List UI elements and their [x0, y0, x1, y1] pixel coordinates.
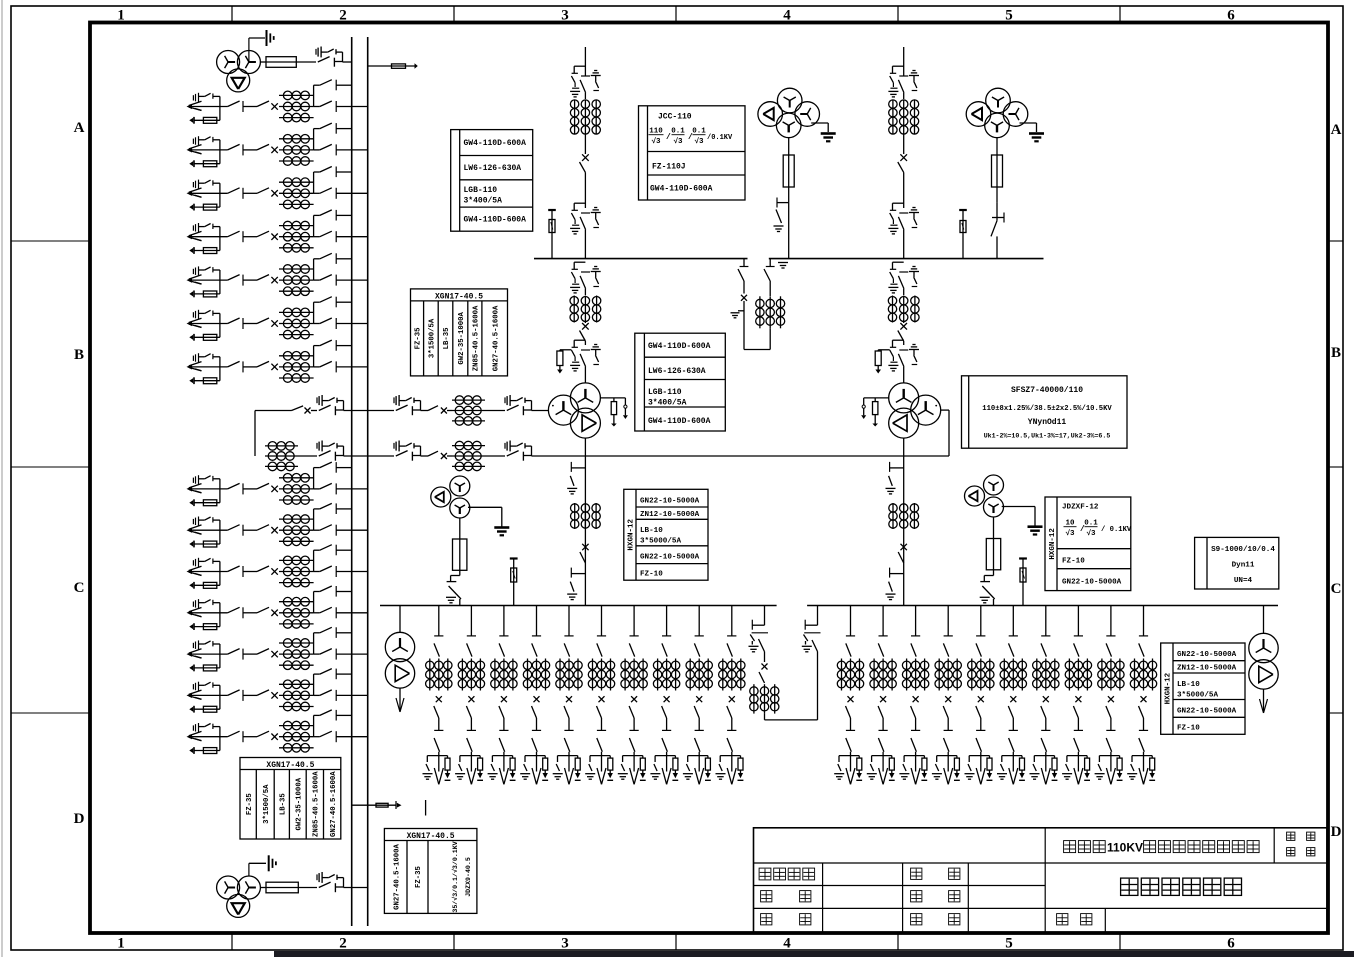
svg-text:B: B [1331, 345, 1341, 361]
svg-text:6: 6 [1227, 936, 1235, 952]
svg-text:C: C [74, 580, 85, 596]
svg-text:√3: √3 [1065, 529, 1075, 538]
svg-text:LB-35: LB-35 [443, 327, 451, 349]
svg-text:LW6-126-630A: LW6-126-630A [648, 367, 706, 376]
svg-text:FZ-110J: FZ-110J [652, 163, 686, 172]
svg-text:Dyn11: Dyn11 [1232, 562, 1255, 570]
svg-text:GW4-110D-600A: GW4-110D-600A [650, 185, 713, 194]
svg-text:GN27-40.5-1600A: GN27-40.5-1600A [330, 771, 338, 837]
svg-text:3*400/5A: 3*400/5A [648, 399, 687, 408]
svg-text:YNynOd11: YNynOd11 [1028, 418, 1067, 427]
svg-text:√3: √3 [673, 137, 683, 146]
svg-text:XGN17-40.5: XGN17-40.5 [407, 832, 455, 841]
svg-text:GW4-110D-600A: GW4-110D-600A [464, 216, 527, 225]
svg-text:S9-1000/10/0.4: S9-1000/10/0.4 [1211, 546, 1275, 554]
svg-text:LGB-110: LGB-110 [464, 186, 498, 195]
svg-text:110KV: 110KV [1107, 841, 1143, 855]
svg-text:JDZXF-12: JDZXF-12 [1062, 504, 1099, 512]
svg-text:GN27-40.5-1600A: GN27-40.5-1600A [393, 844, 401, 910]
svg-text:ZN12-10-5000A: ZN12-10-5000A [1177, 665, 1237, 673]
svg-text:B: B [74, 347, 84, 363]
svg-text:D: D [74, 811, 85, 827]
svg-text:GW4-110D-600A: GW4-110D-600A [648, 417, 711, 426]
svg-text:√3: √3 [1086, 529, 1096, 538]
svg-text:A: A [1331, 122, 1342, 138]
svg-text:/0.1KV: /0.1KV [707, 134, 733, 142]
svg-text:LGB-110: LGB-110 [648, 388, 682, 397]
svg-text:GN22-10-5000A: GN22-10-5000A [1062, 579, 1122, 587]
svg-text:3: 3 [561, 8, 569, 24]
svg-text:D: D [1331, 824, 1342, 840]
svg-text:√3: √3 [694, 137, 704, 146]
svg-text:GW2-35-1000A: GW2-35-1000A [295, 777, 303, 830]
svg-text:1: 1 [117, 936, 125, 952]
svg-text:XGN17-40.5: XGN17-40.5 [435, 292, 483, 301]
svg-text:4: 4 [783, 8, 791, 24]
svg-text:FZ-35: FZ-35 [415, 327, 423, 349]
svg-text:FZ-35: FZ-35 [415, 866, 423, 888]
svg-text:LB-10: LB-10 [1177, 681, 1200, 689]
svg-text:C: C [1331, 581, 1342, 597]
svg-text:HXGN-12: HXGN-12 [1049, 528, 1057, 560]
svg-text:ZN12-10-5000A: ZN12-10-5000A [640, 511, 700, 519]
svg-text:GN27-40.5-1600A: GN27-40.5-1600A [492, 305, 500, 371]
svg-text:35/√3/0.1/√3/0.1KV: 35/√3/0.1/√3/0.1KV [451, 841, 459, 912]
svg-text:3*5000/5A: 3*5000/5A [1177, 692, 1218, 700]
svg-text:JCC-110: JCC-110 [658, 113, 692, 122]
svg-text:GW2-35-1000A: GW2-35-1000A [458, 312, 466, 365]
svg-text:5: 5 [1005, 8, 1013, 24]
svg-text:3*1500/5A: 3*1500/5A [429, 318, 437, 358]
svg-text:4: 4 [783, 936, 791, 952]
svg-text:FZ-10: FZ-10 [1062, 558, 1085, 566]
svg-text:3*5000/5A: 3*5000/5A [640, 538, 681, 546]
svg-text:/ 0.1KV: / 0.1KV [1101, 526, 1132, 534]
svg-text:110±8x1.25%/38.5±2x2.5%/10.5KV: 110±8x1.25%/38.5±2x2.5%/10.5KV [982, 405, 1112, 413]
svg-text:3: 3 [561, 936, 569, 952]
svg-text:3*1500/5A: 3*1500/5A [263, 784, 271, 824]
svg-text:5: 5 [1005, 936, 1013, 952]
svg-text:√3: √3 [651, 137, 661, 146]
svg-text:FZ-10: FZ-10 [1177, 725, 1200, 733]
svg-text:A: A [74, 120, 85, 136]
svg-text:GN22-10-5000A: GN22-10-5000A [1177, 651, 1237, 659]
svg-text:UN=4: UN=4 [1234, 577, 1253, 585]
svg-text:ZN85-40.5-1600A: ZN85-40.5-1600A [473, 305, 481, 371]
svg-text:HXGN-12: HXGN-12 [628, 519, 636, 551]
svg-text:GW4-110D-600A: GW4-110D-600A [464, 139, 527, 148]
svg-text:1: 1 [117, 8, 125, 24]
svg-text:GN22-10-5000A: GN22-10-5000A [640, 554, 700, 562]
svg-text:2: 2 [339, 936, 347, 952]
svg-text:ZN85-40.5-1600A: ZN85-40.5-1600A [313, 771, 321, 837]
svg-text:3*400/5A: 3*400/5A [464, 197, 503, 206]
svg-text:XGN17-40.5: XGN17-40.5 [266, 761, 314, 770]
svg-text:GW4-110D-600A: GW4-110D-600A [648, 342, 711, 351]
svg-text:LB-10: LB-10 [640, 527, 663, 535]
svg-text:2: 2 [339, 8, 347, 24]
svg-text:FZ-35: FZ-35 [246, 793, 254, 815]
svg-text:JDZX9-40.5: JDZX9-40.5 [465, 857, 472, 897]
svg-text:GN22-10-5000A: GN22-10-5000A [1177, 708, 1237, 716]
svg-text:FZ-10: FZ-10 [640, 571, 663, 579]
svg-text:LB-35: LB-35 [279, 793, 287, 815]
svg-text:LW6-126-630A: LW6-126-630A [464, 164, 522, 173]
svg-text:6: 6 [1227, 8, 1235, 24]
svg-text:Uk1-2%=10.5,Uk1-3%=17,Uk2-3%=6: Uk1-2%=10.5,Uk1-3%=17,Uk2-3%=6.5 [984, 433, 1111, 440]
svg-text:GN22-10-5000A: GN22-10-5000A [640, 498, 700, 506]
svg-text:SFSZ7-40000/110: SFSZ7-40000/110 [1011, 386, 1083, 395]
svg-text:HXGN-12: HXGN-12 [1165, 672, 1173, 704]
